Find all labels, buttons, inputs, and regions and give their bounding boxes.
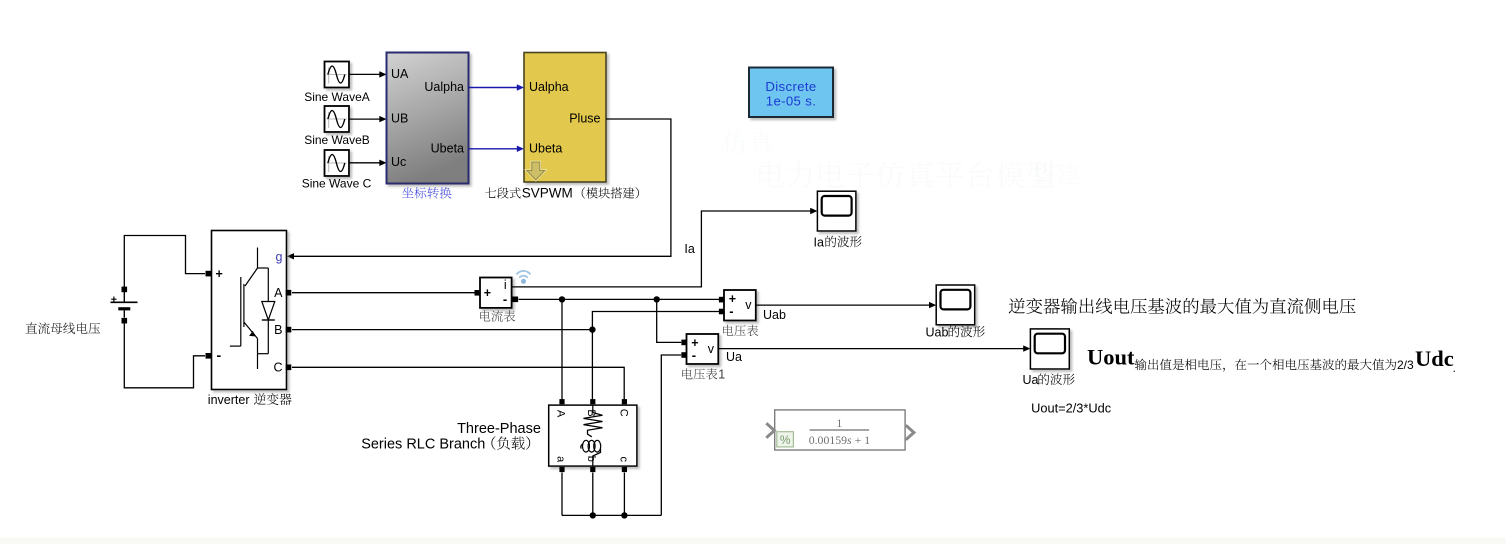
svg-text:a: a [555,456,567,463]
subsystem 坐标转换 [0,0,1,1]
svg-text:0.00159s + 1: 0.00159s + 1 [809,433,870,447]
wire RLC b to neutral [592,473,594,516]
block inverter 逆变器 [212,231,287,390]
source Sine Wave C [325,150,350,176]
port square + input [206,271,212,277]
svg-text:UB: UB [391,111,408,125]
badge percent comment-through [777,432,794,447]
wire RLC c to neutral [623,473,625,516]
port squares RLC top A B C [559,399,564,404]
svg-text:UA: UA [391,67,409,81]
wire Ubeta [469,148,518,150]
port square meter + in [475,290,481,296]
svg-text:Ua: Ua [726,350,742,364]
wire Ua to scope [718,348,1024,350]
junction A to Ua meter [654,296,660,302]
svg-text:-: - [692,347,696,362]
svg-text:Sine Wave C: Sine Wave C [302,176,372,190]
wire battery plus loop [124,236,205,293]
port square Uab + [719,297,725,303]
svg-text:Ualpha: Ualpha [529,80,569,94]
svg-text:Ia: Ia [814,235,824,249]
port square meter - out [513,297,519,303]
annotation 逆变器输出线电压基波的最大值为直流侧电压 [1009,298,1025,314]
voltmeter 电压表1 [687,334,719,364]
wire to Ua+ port [657,299,682,342]
svg-text:+: + [484,286,491,300]
port square Uab - [719,309,725,315]
faint bottom band [0,538,1506,544]
label 电压表1 [682,368,692,379]
port square A [286,290,292,296]
scope Ia的波形 [817,191,856,231]
label 七段式SVPWM（模块搭建） [485,188,496,198]
wire neutral rail [562,514,661,516]
svg-text:Ia: Ia [684,242,694,256]
source Sine WaveB [325,106,350,132]
svg-text:Sine WaveB: Sine WaveB [304,133,370,147]
label 坐标转换 [402,187,414,198]
wire phase C [292,367,624,399]
svg-text:Ualpha: Ualpha [424,80,464,94]
port square Ua + [681,340,687,346]
svg-text:Pluse: Pluse [569,112,600,126]
voltmeter 电压表 [724,290,756,321]
svg-text:+: + [216,267,223,281]
wire Pluse to g [294,119,671,256]
svg-text:i: i [504,278,507,292]
wire RLC a to neutral [561,473,563,516]
svg-text:C: C [617,409,629,417]
wire phase A [292,292,477,294]
svg-text:.: . [1453,360,1457,375]
svg-text:1: 1 [837,418,843,430]
port squares RLC bottom a b c [559,467,564,472]
chevron right port [906,425,914,439]
svg-text:Sine WaveA: Sine WaveA [304,90,370,104]
svg-text:Uout=2/3*Udc: Uout=2/3*Udc [1031,400,1112,415]
wire Ia signal [512,211,811,287]
IGBT with diode icon [257,248,259,269]
wire B down to RLC [591,330,593,400]
label 电流表 [480,310,490,321]
svg-text:A: A [274,286,283,300]
junction A to RLC [559,296,565,302]
label 直流母线电压 [26,322,38,333]
svg-text:Ua: Ua [1023,373,1039,387]
svg-text:B: B [274,323,282,337]
svg-text:Uab: Uab [926,325,949,339]
svg-text:A: A [555,410,567,418]
svg-text:Uc: Uc [391,155,406,169]
svg-text:C: C [273,360,282,374]
svg-text:%: % [780,433,791,447]
port square - input [206,353,212,359]
source Sine WaveA [325,62,350,88]
wire Sine WaveB to UB [349,118,380,120]
subsystem 七段式SVPWM [524,53,606,183]
junction B [589,326,595,332]
svg-text:Uout: Uout [1087,345,1135,370]
series RLC icon resistor and inductor [584,405,603,437]
wire B up to Uab- [592,312,719,330]
svg-text:v: v [708,342,715,356]
svg-text:Ubeta: Ubeta [431,141,464,155]
scope Uab的波形 [936,285,975,325]
svg-text:Ubeta: Ubeta [529,141,562,155]
svg-text:v: v [745,298,752,312]
chevron left port [766,423,774,437]
annotation 输出值是相电压 [1135,359,1147,371]
port square B [286,327,292,333]
svg-text:Udc: Udc [1415,346,1454,371]
current meter 电流表 [480,278,512,308]
wire A down to RLC [561,299,563,399]
svg-text:Uab: Uab [763,308,786,322]
svg-text:SVPWM: SVPWM [522,186,573,201]
label 电压表 [723,325,733,336]
wire meter out to Uab+ [519,298,720,300]
block Three-Phase Series RLC Branch [549,405,637,466]
svg-text:Series RLC Branch: Series RLC Branch [361,437,485,453]
junction neutral c [621,512,627,518]
wire Ualpha [469,87,518,89]
wifi icon [517,271,530,277]
svg-text:1: 1 [718,368,725,382]
svg-text:b: b [585,456,597,462]
svg-text:Three-Phase: Three-Phase [457,421,541,437]
scope Ua的波形 [1030,329,1069,369]
block powergui Discrete [749,68,833,118]
transfer function block (commented out) [775,410,905,450]
svg-text:2/3: 2/3 [1397,358,1414,372]
battery DC source 直流母线电压 [122,287,128,293]
wire Uab to scope [756,304,930,306]
wire Ua- to neutral [661,355,681,515]
wire Sine WaveA to UA [349,73,380,75]
wire Sine Wave C to Uc [349,162,380,164]
svg-text:-: - [217,347,222,363]
svg-text:1e-05 s.: 1e-05 s. [766,93,816,108]
svg-text:c: c [617,456,629,462]
svg-text:g: g [276,250,283,264]
badge variant arrow [527,162,545,180]
wire battery minus loop [124,321,205,388]
svg-text:Discrete: Discrete [765,79,816,94]
svg-text:-: - [729,304,733,319]
faint watermark [759,161,784,188]
svg-text:-: - [503,291,507,306]
port square C [286,365,292,371]
junction neutral b [590,512,596,518]
svg-text:inverter: inverter [208,393,250,407]
port square Ua - [681,352,687,358]
wire phase B [292,329,592,331]
